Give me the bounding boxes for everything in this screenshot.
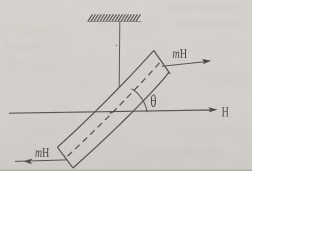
bar magnet upper-left edge: [57, 51, 153, 148]
dashed magnet axis: [68, 62, 161, 157]
faint ghost smudges (page bleed-through): [2, 4, 248, 157]
paper background: [0, 0, 252, 171]
H arrowhead: [208, 107, 217, 112]
pivot dot: [110, 112, 112, 114]
bar magnet bottom end face: [57, 147, 73, 168]
ceiling baseline: [87, 20, 141, 22]
paper noise: [0, 0, 252, 171]
ceiling hatching: [88, 14, 141, 21]
suspension thread: [118, 21, 121, 88]
bottom arrowhead: [23, 159, 32, 165]
top arrowhead: [202, 59, 211, 64]
bottom edge shadow: [0, 170, 252, 171]
top mH force arrow: [162, 62, 205, 66]
angle arc: [132, 89, 148, 113]
bar magnet top end face: [154, 51, 170, 75]
horizontal field line: [9, 110, 210, 113]
bar magnet lower-right edge: [73, 72, 169, 168]
bottom mH force arrow: [15, 160, 67, 162]
speck on thread: [116, 45, 118, 47]
